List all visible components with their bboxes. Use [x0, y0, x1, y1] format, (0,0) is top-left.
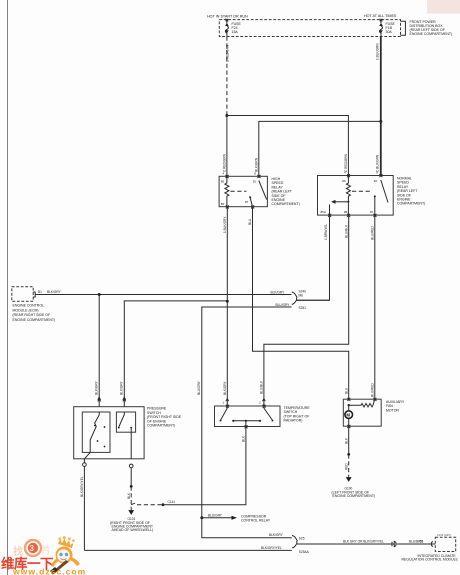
svg-text:BLK/GRN: BLK/GRN [255, 157, 259, 172]
node G junction [347, 453, 350, 456]
svg-text:M: M [346, 412, 350, 417]
wire splice S240 to relay K2 pin 85A exit [297, 299, 330, 301]
wire pressure left output down to bottom rail [83, 466, 85, 550]
ECM box (dashed) [12, 287, 33, 302]
fan motor pin marks top [347, 398, 376, 401]
fuse F24 15A [225, 19, 229, 37]
svg-text:BLU/RED: BLU/RED [371, 382, 375, 397]
temperature switch label [284, 406, 311, 423]
pressure switch bottom wire right ring [129, 464, 133, 468]
svg-text:BLK: BLK [344, 437, 348, 444]
svg-text:BLK/GRY: BLK/GRY [47, 290, 62, 294]
temperature switch box [215, 406, 281, 427]
svg-text:HOT IN START OR RUN: HOT IN START OR RUN [207, 15, 248, 19]
svg-text:RADIATOR): RADIATOR) [284, 419, 303, 423]
relay K2 contact dot [374, 195, 376, 197]
inline connector symbol [392, 541, 396, 546]
relay K2 coil [346, 176, 350, 202]
wire dashed to ground G100 [348, 454, 350, 476]
svg-text:C BLK/GRN: C BLK/GRN [376, 154, 380, 172]
fuse F24 value label [232, 22, 242, 34]
temperature switch pin mark bottom [245, 425, 248, 428]
svg-text:BLU/GRY: BLU/GRY [197, 380, 201, 395]
svg-text:C245 (GRY): C245 (GRY) [437, 533, 451, 537]
compressor control relay label [241, 514, 271, 522]
svg-text:87: 87 [370, 210, 374, 214]
relay K2 pin 85A stub [329, 205, 331, 216]
pressure switch inner box right [116, 412, 135, 432]
svg-text:15A: 15A [232, 30, 239, 34]
wire relay K1 pin 30 up and right to node B [259, 121, 381, 176]
wire pressure right output to ground G101 [130, 468, 132, 487]
svg-text:BLK/GRY: BLK/GRY [223, 380, 227, 395]
svg-text:REGULATION CONTROL MODULE: REGULATION CONTROL MODULE [402, 558, 459, 562]
svg-text:1 BRN/YEL: 1 BRN/YEL [324, 223, 328, 240]
ground G101 label [110, 517, 154, 532]
svg-text:HOT AT ALL TIMES: HOT AT ALL TIMES [364, 14, 397, 18]
svg-text:S25: S25 [299, 536, 305, 540]
pressure switch right contact blade [119, 412, 125, 427]
wire node C down to temperature switch [226, 301, 228, 406]
svg-text:BLK/GRY: BLK/GRY [269, 533, 284, 537]
relay K1 high speed relay box [219, 176, 267, 206]
svg-text:3: 3 [30, 544, 35, 553]
ground G101 symbol [129, 510, 133, 515]
relay K1 label [272, 177, 300, 206]
svg-text:ENGINE COMPARTMENT): ENGINE COMPARTMENT) [13, 318, 56, 322]
fan motor resistor [349, 399, 375, 407]
svg-text:C RED/GRN: C RED/GRN [344, 153, 348, 172]
pressure switch right contact dots [118, 427, 120, 429]
relay K2 coil to 85 pin [347, 202, 349, 215]
svg-text:1 BLK/GRN: 1 BLK/GRN [375, 43, 379, 60]
wire relay K2 pin 85A down to splice S240 [297, 215, 330, 300]
temperature switch right blade [264, 406, 273, 420]
svg-text:S251: S251 [299, 306, 307, 310]
fan motor wires inside [348, 405, 350, 411]
node H junction on compressor wire [200, 516, 203, 519]
svg-text:BLU/GRY: BLU/GRY [276, 303, 291, 307]
splice S25 labels [299, 536, 310, 553]
svg-text:BLU: BLU [344, 387, 348, 394]
svg-text:BLU/RED: BLU/RED [371, 225, 375, 240]
node F junction [162, 503, 165, 506]
wire node H down to splice S25 top [202, 518, 292, 538]
fan motor M symbol [345, 411, 353, 419]
wire relay K2 pin 85 down left to temperature switch [264, 215, 349, 406]
svg-text:30A: 30A [386, 30, 393, 34]
svg-text:BLU: BLU [248, 218, 252, 225]
relay K2 switch blade [381, 180, 388, 203]
splice S240 labels [299, 290, 307, 310]
node E junction [130, 485, 133, 488]
power distribution box label [410, 20, 453, 36]
svg-text:BLU/GRY: BLU/GRY [208, 513, 223, 517]
svg-text:COMPARTMENT): COMPARTMENT) [147, 424, 175, 428]
relay K2 normal speed relay box [318, 176, 394, 216]
watermark mascot [50, 536, 80, 574]
fuse F1B 30A [379, 19, 383, 37]
pressure switch label [147, 407, 182, 428]
svg-text:BLU/BLK: BLU/BLK [260, 380, 264, 394]
power distribution box bracket [401, 21, 406, 35]
svg-text:BLK GRY OR BLK/GRY/YEL: BLK GRY OR BLK/GRY/YEL [343, 540, 384, 544]
temperature switch contact bar [233, 420, 260, 422]
svg-text:BLU/BLK: BLU/BLK [344, 224, 348, 238]
pressure switch left contact dots [94, 425, 96, 427]
relay K2 pin marks top [347, 174, 382, 177]
relay K1 dashed link [231, 190, 247, 192]
ECM label [13, 304, 56, 322]
svg-text:30: 30 [253, 180, 257, 184]
ICRCM label [402, 554, 459, 562]
temperature switch pin marks top [226, 405, 266, 408]
power distribution box (dashed) [219, 20, 400, 37]
temperature switch pin chevrons above [226, 399, 265, 402]
svg-text:B1: B1 [38, 290, 42, 294]
svg-text:(REAR RIGHT SIDE OF: (REAR RIGHT SIDE OF [13, 313, 51, 317]
svg-text:85: 85 [344, 210, 348, 214]
node D junction on wire A [98, 293, 101, 296]
wire relay K1 pin 85 down to node C [226, 207, 228, 302]
wire node A down to relay K1 pin 86 [226, 116, 228, 177]
node C junction [226, 300, 229, 303]
pressure switch inner box left [82, 412, 110, 452]
svg-text:30: 30 [374, 179, 378, 183]
relay K1 pin marks bottom [226, 205, 254, 208]
svg-text:ENGINE COMPARTMENT): ENGINE COMPARTMENT) [410, 32, 453, 36]
svg-text:片: 片 [42, 544, 51, 555]
svg-text:M6: M6 [299, 294, 304, 298]
wire node A to relay K2 pin 86 (horizontal) [227, 116, 349, 176]
pressure switch left contact blade [90, 412, 99, 448]
svg-text:MOTOR: MOTOR [386, 408, 399, 412]
pressure switch ring terminal left [83, 463, 87, 467]
wire fan motor to ground G100 [348, 426, 350, 454]
svg-text:BLK: BLK [127, 492, 131, 499]
svg-text:85: 85 [221, 202, 225, 206]
pressure switch bottom wire left [84, 452, 90, 462]
relay K2 pin marks bottom [328, 214, 376, 217]
svg-text:BLK/GRY/YEL: BLK/GRY/YEL [80, 476, 84, 497]
auxiliary fan motor box [343, 399, 381, 426]
svg-text:BLK/GRY/YEL: BLK/GRY/YEL [261, 546, 282, 550]
wire to compressor control relay with arrow [202, 517, 232, 519]
wire connector to ICRCM [397, 543, 436, 545]
svg-text:1 BLK/GRY: 1 BLK/GRY [223, 216, 227, 233]
svg-text:BLK/GRY: BLK/GRY [271, 290, 286, 294]
ECM pin tick [33, 292, 35, 297]
svg-text:87: 87 [245, 200, 249, 204]
wire relay K2 pin 87 down to fan motor [374, 215, 376, 399]
relay K1 switch blade [259, 181, 267, 200]
ground G100 symbol [347, 477, 351, 482]
relay K2 dashed link [352, 190, 372, 192]
wire dashed to ground G101 [130, 486, 132, 509]
svg-text:52: 52 [420, 540, 424, 544]
page border left edge [7, 0, 9, 575]
wire relay K1 pin 87 down right to fan [253, 207, 349, 400]
relay K2 contact stub [374, 196, 376, 215]
pressure switch left output wire inside [89, 448, 91, 452]
fuse F1B value label [386, 22, 396, 34]
fan motor internal node dot [348, 404, 350, 406]
relay K1 pin marks top [226, 175, 261, 178]
watermark emblem circle [25, 540, 41, 556]
svg-text:MODULE (ECM): MODULE (ECM) [13, 308, 39, 312]
wire temp switch common to ground branch (dashed part) [131, 502, 137, 505]
fan motor label [386, 400, 405, 412]
wire splice bottom branch (wire B2) from compressor wire [202, 307, 292, 518]
svg-text:C141: C141 [168, 500, 176, 504]
svg-text:BLK: BLK [242, 435, 246, 442]
svg-text:ENGINE COMPARTMENT): ENGINE COMPARTMENT) [333, 494, 376, 498]
splice S240 symbol [292, 292, 297, 304]
svg-text:RED: RED [344, 463, 348, 470]
temperature switch common stub [245, 421, 247, 427]
node A junction [225, 114, 228, 117]
svg-text:1 RED/GRN: 1 RED/GRN [225, 44, 229, 62]
ground G100 label [332, 486, 376, 498]
svg-text:85A: 85A [321, 210, 326, 214]
wire fuse F24 to node A (dashed) [226, 37, 228, 116]
svg-text:AHEAD OF WHEELWELL): AHEAD OF WHEELWELL) [112, 528, 154, 532]
wire node F to temp switch common [163, 427, 246, 505]
svg-text:C RED/GRN: C RED/GRN [223, 153, 227, 172]
relay K2 coil junction dot [347, 201, 349, 203]
svg-text:S25AA: S25AA [299, 550, 310, 554]
wire node D down to pressure switch pin 1 [98, 295, 100, 407]
dzsc watermark [0, 536, 90, 575]
svg-text:86: 86 [342, 179, 346, 183]
svg-text:COMPARTMENT): COMPARTMENT) [397, 202, 425, 206]
relay K2 label [397, 177, 425, 206]
fan motor pin mark bottom [347, 425, 350, 428]
svg-text:86: 86 [221, 180, 225, 184]
pressure switch outer box [74, 407, 144, 459]
wire pressure switch pin 2 up to node C (wire B) [124, 301, 227, 407]
wire ECM to splice S240 (wire A) [35, 294, 291, 296]
svg-text:ENGINE CONTROL: ENGINE CONTROL [13, 304, 45, 308]
wire splice S25 to connector [297, 543, 392, 545]
pink scan blemish top right [427, 0, 460, 14]
svg-text:BLK/GRY: BLK/GRY [120, 380, 124, 395]
svg-text:COMPARTMENT): COMPARTMENT) [272, 202, 300, 206]
relay K1 coil [225, 176, 229, 206]
wire fuse F1B down to relay K2 pin 30 (heavy) [380, 37, 382, 176]
svg-text:www.dzsc.com: www.dzsc.com [12, 567, 86, 575]
svg-text:CONTROL RELAY: CONTROL RELAY [241, 519, 271, 523]
temperature switch left blade [221, 406, 228, 420]
pressure switch right output wire inside [130, 428, 132, 459]
relay K2 arrow to pin 85A [336, 201, 349, 203]
pressure switch pin chevrons top [98, 397, 101, 401]
ICRCM box (dashed) [431, 542, 433, 547]
svg-text:BLK/GRY: BLK/GRY [94, 380, 98, 395]
relay K1 contact dot [249, 196, 251, 198]
relay K1 contact stub [250, 197, 252, 207]
wire bottom rail to splice S25 bottom [84, 549, 291, 551]
splice S25 symbol [292, 536, 297, 548]
node B junction [379, 120, 382, 123]
